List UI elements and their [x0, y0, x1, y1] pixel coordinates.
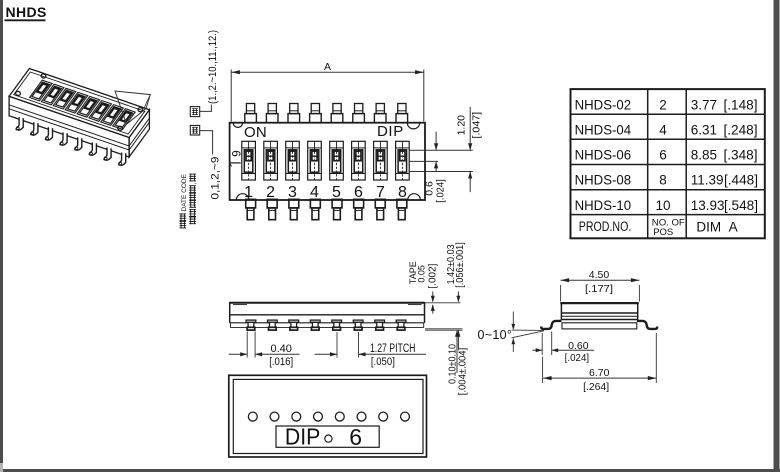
svg-text:NHDS-06: NHDS-06	[575, 148, 632, 163]
side view: dim 0.10±0.10 [.004±.004]	[456, 330, 458, 373]
remark column 1: add DATE CODE	[180, 221, 187, 229]
svg-text:DIP: DIP	[377, 123, 404, 140]
isometric view: front row gull-wing pins	[16, 117, 23, 130]
top view: dim 0.6 [.024]	[435, 132, 437, 150]
side view: dim TAPE 0.05 [.002]	[432, 292, 434, 302]
svg-text:11.39: 11.39	[691, 173, 724, 188]
bottom view: outer outline	[229, 375, 427, 457]
svg-text:6.70: 6.70	[589, 367, 610, 379]
svg-text:3.77: 3.77	[691, 97, 717, 112]
svg-text:DIM A: DIM A	[696, 220, 737, 235]
end view: angle 0~10 degrees	[512, 329, 544, 331]
svg-text:ON: ON	[244, 124, 267, 141]
side view: 8 pins	[246, 320, 256, 322]
end view: body	[561, 303, 637, 319]
svg-text:[.016]: [.016]	[269, 356, 293, 368]
svg-text:0~10°: 0~10°	[478, 328, 513, 342]
top view: 8 switch positions with numbers	[242, 141, 256, 180]
page bottom border bar	[3, 469, 780, 472]
product table frame	[571, 89, 765, 238]
isometric view: front long side face	[9, 96, 129, 157]
svg-text:1: 1	[244, 184, 253, 201]
svg-text:0,1,2,~9: 0,1,2,~9	[209, 157, 221, 200]
top view: 8 top pins	[246, 104, 254, 114]
top view: corner index notches	[233, 123, 242, 128]
svg-text:13.93: 13.93	[691, 198, 725, 213]
side view: extension lines right	[425, 302, 461, 304]
bottom view: DIP 6 marking box	[276, 426, 379, 447]
svg-text:DIP: DIP	[285, 423, 320, 449]
svg-text:6: 6	[659, 148, 667, 163]
svg-text:[.264]: [.264]	[583, 381, 609, 393]
isometric view: peeled tape sheet	[115, 91, 150, 124]
svg-text:[.004±.004]: [.004±.004]	[458, 348, 469, 396]
month callout box	[190, 107, 199, 117]
svg-text:[.024]: [.024]	[565, 352, 590, 364]
svg-text:[.050]: [.050]	[371, 356, 395, 368]
end view: left gull-wing lead	[541, 321, 561, 329]
svg-text:NHDS-02: NHDS-02	[575, 97, 632, 112]
page right border bar	[774, 0, 780, 472]
isometric view: 8 switch openings	[30, 80, 52, 101]
isometric view: corner notches	[41, 73, 47, 78]
svg-text:8.85: 8.85	[691, 148, 717, 163]
svg-text:POS: POS	[653, 227, 673, 238]
table column lines	[647, 89, 649, 238]
svg-text:0.10±0.10: 0.10±0.10	[447, 344, 458, 384]
svg-text:,: ,	[190, 182, 197, 184]
svg-text:[.448]: [.448]	[724, 173, 758, 188]
svg-text:(1.,2.~10.,11.,12.): (1.,2.~10.,11.,12.)	[207, 30, 219, 104]
svg-text:[.548]: [.548]	[724, 198, 758, 213]
svg-text:A: A	[324, 61, 331, 73]
svg-text:9: 9	[232, 150, 244, 156]
svg-text:NHDS-04: NHDS-04	[575, 122, 632, 137]
svg-text:10: 10	[655, 198, 670, 213]
top view: body outline	[230, 123, 425, 200]
svg-text:PROD.NO.: PROD.NO.	[579, 219, 632, 234]
svg-text:DATE CODE: DATE CODE	[181, 173, 188, 211]
isometric view: top face rim	[14, 72, 145, 134]
svg-text:[.248]: [.248]	[724, 122, 758, 137]
side view: dim 1.27 PITCH [.050]	[336, 332, 338, 358]
end view: bottom strip	[562, 323, 637, 329]
side view: base strip	[231, 327, 424, 329]
svg-text:[.148]: [.148]	[724, 97, 758, 112]
end view: dim 0.60 [.024]	[541, 333, 543, 355]
page left border bar	[0, 0, 3, 463]
top view: actuator travel reference lines	[410, 149, 473, 151]
side view: tape edge notches	[233, 304, 247, 306]
side view: dim 1.42±0.03 [.056±.001]	[457, 292, 459, 302]
svg-text:4: 4	[659, 122, 667, 137]
svg-text:0.40: 0.40	[270, 343, 291, 355]
svg-text:1.20: 1.20	[456, 115, 468, 136]
svg-text:0.60: 0.60	[568, 340, 589, 352]
end view: right gull-wing lead	[637, 321, 657, 329]
svg-text:3: 3	[288, 184, 297, 201]
top view: 8 bottom pins	[246, 199, 256, 208]
svg-text:2: 2	[659, 97, 667, 112]
svg-text:[.047]: [.047]	[470, 112, 482, 139]
svg-text:[.002]: [.002]	[427, 263, 438, 288]
svg-text:0.05: 0.05	[416, 265, 426, 283]
top view: dim 1.20 [.047]	[469, 107, 471, 150]
svg-text:2: 2	[266, 184, 275, 201]
svg-text:[.348]: [.348]	[724, 148, 758, 163]
leader from year box to digits note	[200, 131, 213, 155]
svg-text:4.50: 4.50	[589, 269, 610, 281]
top view: dimension A	[231, 71, 423, 73]
svg-text:[.024]: [.024]	[434, 179, 446, 203]
svg-text:8: 8	[659, 173, 667, 188]
svg-text:5: 5	[332, 184, 341, 201]
side view: dim 0.40 [.016]	[246, 332, 248, 358]
side view: body	[230, 302, 425, 304]
svg-text:1.27 PITCH: 1.27 PITCH	[370, 343, 416, 355]
svg-text:[.177]: [.177]	[585, 283, 613, 295]
isometric view: top face	[9, 69, 149, 138]
svg-text:7: 7	[376, 184, 385, 201]
bottom view: 8 pin circles	[248, 412, 257, 421]
isometric view: right end face	[129, 110, 149, 157]
svg-text:NHDS: NHDS	[6, 4, 47, 20]
svg-text:6: 6	[354, 184, 363, 201]
year callout box	[190, 125, 199, 135]
svg-text:6.31: 6.31	[691, 122, 717, 137]
svg-text:NHDS-10: NHDS-10	[575, 198, 632, 213]
svg-text:NHDS-08: NHDS-08	[575, 173, 632, 188]
bottom view: inner outline	[233, 379, 423, 453]
svg-text:8: 8	[398, 184, 407, 201]
remark column 2: black: western year month	[189, 216, 196, 224]
svg-text:[.056±.001]: [.056±.001]	[455, 242, 466, 288]
svg-text:4: 4	[310, 184, 319, 201]
svg-text:6: 6	[349, 424, 362, 450]
end view: dim 4.50 [.177]	[560, 285, 562, 302]
end view: dim 6.70 [.264]	[542, 357, 544, 384]
leader from month box to note	[200, 105, 212, 112]
